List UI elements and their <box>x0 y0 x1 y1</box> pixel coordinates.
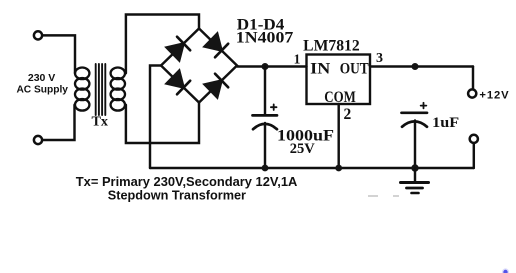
svg-text:Tx= Primary 230V,Secondary 12V: Tx= Primary 230V,Secondary 12V,1A <box>76 174 298 189</box>
wire C1 bottom to ground rail <box>264 123 266 168</box>
svg-text:1: 1 <box>294 51 301 66</box>
svg-text:AC Supply: AC Supply <box>16 85 68 96</box>
svg-text:1uF: 1uF <box>432 115 459 131</box>
svg-text:Stepdown Transformer: Stepdown Transformer <box>108 189 246 203</box>
wire J1b to transformer primary bottom <box>42 105 74 140</box>
terminal J1b (AC input bottom) <box>34 136 42 144</box>
wire regulator OUT (pin 3) to +12V node <box>370 65 473 67</box>
svg-text:3: 3 <box>376 51 383 66</box>
wire secondary top to bridge top vertex <box>126 15 199 74</box>
svg-text:2: 2 <box>344 106 352 123</box>
stray blue speck bottom-right <box>503 270 507 273</box>
junction node at C1 top <box>262 63 269 70</box>
transformer Tx secondary winding <box>111 68 125 111</box>
junction node ground/rail <box>411 164 418 171</box>
bridge rectifier D1-D4 diamond <box>161 29 237 103</box>
diode D4 (bottom to right) <box>204 74 229 99</box>
stray faint marks <box>368 195 399 197</box>
wire J1a to transformer primary top <box>42 35 75 73</box>
diode D3 (left to bottom) <box>166 70 191 95</box>
svg-text:Tx: Tx <box>92 115 109 130</box>
wire bridge negative (left vertex) down to ground rail <box>150 66 161 169</box>
terminal J1a (AC input top) <box>34 31 42 39</box>
junction node COM/rail <box>335 165 342 172</box>
diode D2 (top to right) <box>204 33 229 58</box>
svg-text:IN: IN <box>310 60 331 77</box>
svg-text:1N4007: 1N4007 <box>236 30 294 47</box>
svg-text:COM: COM <box>324 89 356 106</box>
diode D1 (left to top) <box>166 37 191 62</box>
svg-text:OUT: OUT <box>340 60 369 77</box>
svg-text:+12V: +12V <box>479 90 509 102</box>
svg-text:230 V: 230 V <box>28 72 55 84</box>
transformer Tx core <box>96 64 106 115</box>
transformer Tx primary winding <box>75 68 89 111</box>
wire junction to capacitor C1 <box>264 67 266 115</box>
C1 polarity plus <box>271 104 277 110</box>
terminal J2b output return <box>470 135 478 143</box>
junction node at C2 top <box>412 63 419 70</box>
ground rail wire <box>150 167 474 169</box>
wire bridge positive output to regulator IN (pin 1) <box>237 65 307 67</box>
wire J2b to ground rail <box>473 143 475 168</box>
svg-text:LM7812: LM7812 <box>303 38 360 55</box>
wire secondary bottom to bridge bottom vertex <box>126 103 199 144</box>
wire regulator COM (pin 2) to ground rail <box>337 104 339 168</box>
svg-text:25V: 25V <box>290 141 315 157</box>
wire +12V node down to output terminal <box>472 67 474 90</box>
C2 polarity plus <box>421 103 427 109</box>
terminal J2a +12V output <box>468 89 476 97</box>
capacitor C2 1uF plates <box>402 113 428 127</box>
wire C2 bottom to ground rail <box>414 121 416 169</box>
capacitor C1 1000uF plates <box>253 115 278 129</box>
ground symbol <box>401 168 429 193</box>
junction node C1/rail <box>262 165 269 172</box>
regulator U1 LM7812 body <box>307 55 371 105</box>
